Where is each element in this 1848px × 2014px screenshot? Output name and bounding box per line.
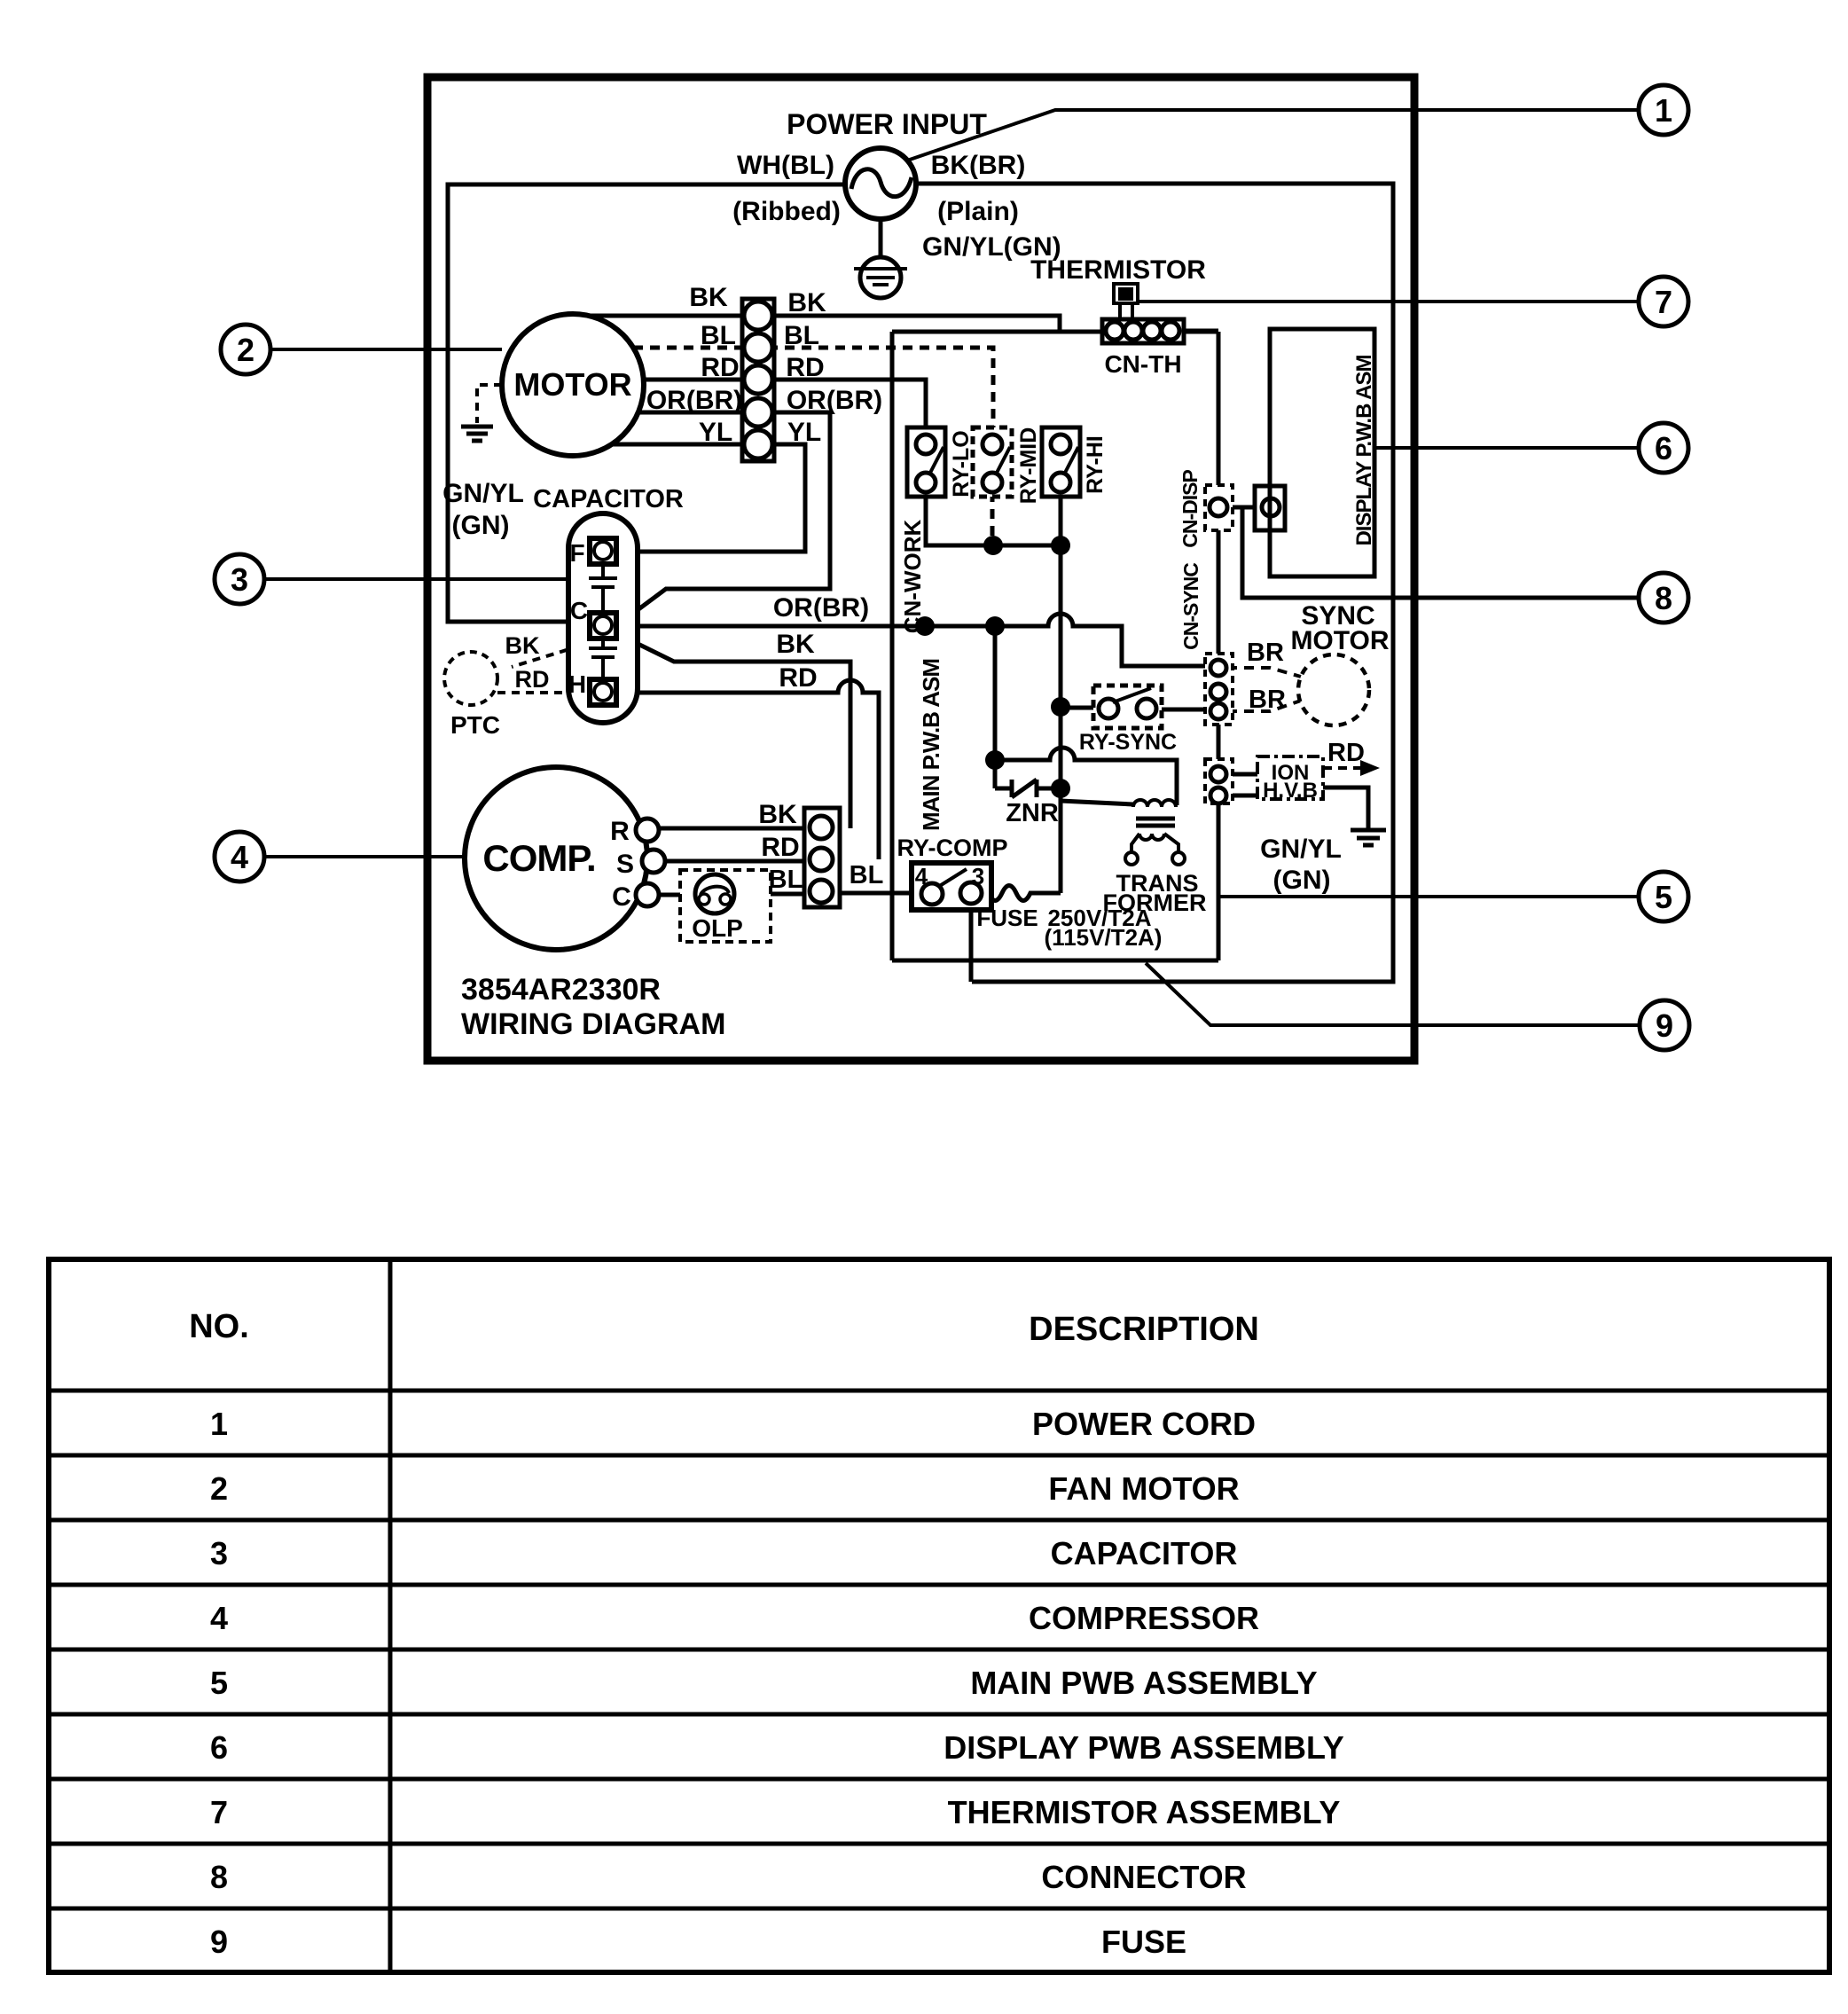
svg-text:9: 9 — [210, 1924, 228, 1960]
svg-text:GN/YL: GN/YL — [442, 479, 524, 508]
svg-text:COMPRESSOR: COMPRESSOR — [1029, 1600, 1259, 1636]
wire BL motor lead (dashed) to RY-MID — [633, 348, 993, 427]
svg-text:RD: RD — [779, 663, 817, 693]
svg-text:BR: BR — [1247, 639, 1284, 667]
ground earth bars right — [1351, 830, 1386, 845]
svg-text:4: 4 — [210, 1600, 228, 1636]
svg-text:RY-SYNC: RY-SYNC — [1079, 730, 1177, 755]
wire CN-DISP to display connector — [1218, 505, 1271, 510]
svg-text:RY-MID: RY-MID — [1016, 427, 1041, 505]
svg-text:NO.: NO. — [189, 1308, 249, 1345]
capacitor terminal C — [590, 613, 616, 639]
callout circle 1 — [1639, 85, 1688, 135]
ION H.V.B box (dash-dot) — [1257, 756, 1323, 799]
transformer secondary leads — [1132, 834, 1178, 852]
wire BK motor lead to main pwb — [589, 316, 1060, 332]
wire RD capacitor H to compressor S connector — [615, 680, 879, 859]
svg-text:(Ribbed): (Ribbed) — [732, 197, 841, 226]
svg-text:CAPACITOR: CAPACITOR — [533, 485, 684, 513]
motor ground dashed stub — [477, 385, 502, 423]
wire CN-TH to CN-DISP drop — [1184, 329, 1218, 333]
connector display side — [1255, 486, 1285, 530]
callout line 6 display pwb — [1374, 446, 1640, 450]
wire BL connector pin 3 to RY-COMP pin 4 — [840, 891, 932, 896]
capacitor plates F-C — [589, 564, 617, 613]
svg-text:ZNR: ZNR — [1006, 799, 1059, 827]
wire OR(BR) motor lead to capacitor C — [621, 412, 830, 623]
callout line 7 thermistor — [1137, 300, 1640, 303]
wire BR dashed CN-SYNC pin3 to sync motor — [1227, 701, 1301, 711]
wire BK capacitor C to compressor R connector — [618, 634, 850, 828]
compressor circle — [465, 767, 647, 950]
svg-text:1: 1 — [1655, 92, 1672, 129]
node OR(BR)/CN-WORK — [915, 616, 935, 636]
svg-text:BL: BL — [784, 321, 819, 350]
svg-text:3: 3 — [231, 561, 248, 598]
wire CN-ION pins to ION HVB box — [1227, 774, 1257, 795]
callout line 9 fuse — [1146, 963, 1640, 1025]
svg-text:BK: BK — [758, 800, 797, 829]
svg-text:6: 6 — [1655, 430, 1672, 466]
callout line 3 capacitor — [259, 577, 568, 581]
svg-text:FUSE: FUSE — [1101, 1924, 1186, 1960]
table row lines — [49, 1389, 1829, 1393]
wire compressor S to connector pin 2 — [658, 859, 821, 864]
svg-text:POWER INPUT: POWER INPUT — [787, 108, 987, 140]
capacitor terminal H — [590, 679, 616, 705]
wire RY-MID bottom (dashed) — [991, 492, 995, 545]
svg-text:CN-WORK: CN-WORK — [899, 520, 926, 634]
thermistor leads into CN-TH — [1120, 303, 1132, 321]
callout circle 2 — [221, 325, 270, 374]
svg-text:BK(BR): BK(BR) — [931, 151, 1026, 180]
svg-text:9: 9 — [1656, 1007, 1673, 1044]
callout circle 7 — [1639, 277, 1688, 326]
node RY-SYNC branch — [1051, 697, 1070, 717]
svg-text:CN-TH: CN-TH — [1104, 350, 1181, 378]
svg-text:BL: BL — [769, 866, 803, 894]
svg-text:(GN): (GN) — [1273, 866, 1331, 895]
svg-text:C: C — [612, 882, 631, 912]
node ZNR right — [1051, 779, 1070, 798]
svg-text:RD: RD — [786, 353, 824, 382]
wire hop over to transformer primary right — [995, 748, 1177, 805]
svg-text:8: 8 — [210, 1859, 228, 1895]
svg-text:RY-COMP: RY-COMP — [897, 835, 1007, 861]
svg-text:CN-SYNC: CN-SYNC — [1179, 563, 1202, 650]
svg-text:BR: BR — [1249, 686, 1286, 714]
node transformer branch — [985, 750, 1005, 770]
transformer primary coil — [1133, 800, 1176, 807]
compressor pin R — [636, 819, 659, 842]
svg-text:BK: BK — [776, 630, 815, 659]
svg-text:BL: BL — [850, 861, 884, 889]
node RY-MID bottom — [983, 536, 1003, 555]
connector CN-ION (dashed) — [1205, 759, 1233, 803]
wire compressor C to OLP — [658, 893, 697, 897]
svg-text:4: 4 — [915, 863, 928, 889]
svg-text:FUSE: FUSE — [976, 905, 1038, 931]
relay RY-HI box — [1042, 427, 1080, 497]
svg-text:3: 3 — [210, 1535, 228, 1571]
callout circle 6 — [1639, 423, 1688, 473]
wire WH(BL) neutral: power input left, down left side, to capacitor C — [448, 184, 845, 622]
svg-text:(Plain): (Plain) — [937, 197, 1019, 226]
svg-text:F: F — [569, 539, 584, 567]
svg-text:YL: YL — [699, 418, 732, 447]
wire BK(BR) line: power input right, down right side, to fuse node — [916, 184, 1393, 982]
table column divider — [388, 1259, 393, 1972]
outer border frame of wiring diagram — [427, 77, 1414, 1061]
fuse squiggle from RY-COMP pin 3 — [982, 886, 1061, 901]
svg-text:THERMISTOR ASSEMBLY: THERMISTOR ASSEMBLY — [948, 1794, 1341, 1830]
svg-text:THERMISTOR: THERMISTOR — [1030, 255, 1206, 285]
svg-text:CAPACITOR: CAPACITOR — [1051, 1535, 1238, 1571]
svg-text:7: 7 — [210, 1794, 228, 1830]
wire ION HVB to earth ground — [1323, 788, 1368, 828]
svg-text:DESCRIPTION: DESCRIPTION — [1029, 1311, 1259, 1348]
svg-text:2: 2 — [210, 1470, 228, 1507]
svg-text:C: C — [570, 597, 588, 624]
svg-text:YL: YL — [787, 418, 821, 447]
svg-text:OR(BR): OR(BR) — [773, 593, 869, 623]
svg-text:BK: BK — [505, 632, 540, 659]
capacitor body (stadium) — [568, 513, 638, 723]
svg-text:7: 7 — [1655, 284, 1672, 320]
relay RY-COMP box — [912, 863, 991, 910]
main pwb asm box bottom edge — [892, 959, 1218, 963]
wire RD dashed arrow out of ION HVB — [1323, 766, 1360, 770]
svg-text:RD: RD — [1327, 739, 1365, 767]
capacitor plates C-H — [589, 639, 617, 679]
ground symbol (earth in circle) below power input — [860, 257, 901, 298]
svg-text:RY-HI: RY-HI — [1083, 435, 1108, 494]
svg-text:H: H — [568, 670, 586, 698]
callout circle 5 — [1639, 872, 1688, 921]
svg-text:3854AR2330R: 3854AR2330R — [461, 973, 661, 1007]
connector CN-TH — [1102, 319, 1184, 343]
display pwb asm box — [1270, 329, 1374, 576]
svg-text:MAIN P.W.B ASM: MAIN P.W.B ASM — [918, 659, 944, 831]
table frame — [49, 1259, 1829, 1972]
wire junction down to callout 8 — [1242, 507, 1640, 598]
svg-text:BK: BK — [787, 288, 826, 317]
ground bars fan motor — [461, 427, 493, 441]
svg-text:MAIN PWB ASSEMBLY: MAIN PWB ASSEMBLY — [970, 1665, 1317, 1701]
power input AC source circle — [845, 148, 916, 219]
wire OR(BR) common from capacitor C to CN-SYNC — [615, 614, 1218, 666]
motor connector 5-pin — [742, 299, 774, 461]
sync motor dashed circle — [1298, 654, 1369, 725]
relay RY-SYNC box (dashed) — [1093, 686, 1162, 728]
OLP disc — [695, 874, 734, 913]
svg-text:CN-DISP: CN-DISP — [1178, 470, 1202, 548]
svg-text:OLP: OLP — [692, 914, 743, 942]
svg-text:POWER CORD: POWER CORD — [1032, 1406, 1256, 1442]
svg-text:BK: BK — [689, 283, 728, 312]
svg-text:OR(BR): OR(BR) — [646, 386, 742, 415]
svg-text:WH(BL): WH(BL) — [737, 151, 834, 180]
dashed BK capacitor to PTC — [512, 646, 581, 667]
svg-text:8: 8 — [1655, 580, 1672, 616]
transformer core — [1136, 819, 1175, 826]
svg-text:FORMER: FORMER — [1103, 889, 1207, 916]
wire RY-SYNC to CN-SYNC pin 3 — [1147, 708, 1218, 712]
wire neutral branch down to ZNR / transformer — [993, 626, 998, 788]
fan motor circle — [502, 314, 644, 456]
svg-text:RD: RD — [701, 353, 739, 382]
connector CN-SYNC (dashed) — [1205, 654, 1233, 725]
sine symbol inside power input — [851, 169, 912, 197]
connector CN-DISP (dashed) — [1205, 485, 1233, 530]
svg-text:2: 2 — [237, 332, 254, 368]
svg-text:H.V.B: H.V.B — [1263, 779, 1318, 803]
svg-text:FAN MOTOR: FAN MOTOR — [1048, 1470, 1239, 1507]
svg-text:3: 3 — [972, 863, 984, 889]
svg-text:5: 5 — [210, 1665, 228, 1701]
svg-text:(GN): (GN) — [452, 511, 510, 540]
svg-text:COMP.: COMP. — [482, 837, 595, 879]
capacitor terminal F — [590, 538, 616, 564]
svg-text:WIRING DIAGRAM: WIRING DIAGRAM — [461, 1007, 725, 1041]
varistor ZNR symbol — [1012, 780, 1061, 797]
connector 3-pin compressor side — [804, 808, 840, 907]
node OR(BR)/ZNR branch — [985, 616, 1005, 636]
wire BR dashed CN-SYNC pin1 to sync motor — [1227, 668, 1301, 677]
wire ZNR left lead — [995, 787, 1012, 791]
svg-text:OR(BR): OR(BR) — [787, 386, 882, 415]
main pwb asm box top edge / BK net — [892, 330, 1218, 334]
callout line 8 connector — [1250, 596, 1640, 599]
compressor pin S — [642, 850, 665, 873]
svg-text:1: 1 — [210, 1406, 228, 1442]
callout line 4 compressor — [259, 855, 466, 858]
wire YL motor lead to capacitor F — [612, 444, 805, 552]
svg-text:MOTOR: MOTOR — [1290, 626, 1389, 655]
main pwb asm box left edge — [890, 332, 895, 960]
svg-text:DISPLAY PWB ASSEMBLY: DISPLAY PWB ASSEMBLY — [944, 1729, 1343, 1766]
svg-text:6: 6 — [210, 1729, 228, 1766]
svg-text:RD: RD — [761, 833, 799, 862]
svg-text:(115V/T2A): (115V/T2A) — [1045, 924, 1163, 951]
wire RY-LO bottom to RY-HI column — [926, 492, 1061, 545]
node RY-HI bottom — [1051, 536, 1070, 555]
svg-text:RY-LO: RY-LO — [949, 430, 974, 497]
callout circle 3 — [215, 554, 264, 604]
svg-text:MOTOR: MOTOR — [513, 366, 631, 403]
svg-text:4: 4 — [231, 839, 248, 875]
wire RY-HI column: relay bottom down to fuse node — [1059, 492, 1063, 893]
callout line 5 main pwb — [1219, 895, 1640, 898]
OLP dashed box — [680, 870, 771, 942]
wire compressor R to connector pin 1 — [658, 827, 821, 831]
svg-text:RD: RD — [515, 666, 550, 693]
main pwb asm box right edge — [1217, 332, 1221, 960]
compressor pin C — [636, 883, 659, 906]
svg-text:BL: BL — [701, 321, 736, 350]
power input ground stem — [879, 219, 883, 258]
thermistor body — [1114, 284, 1138, 303]
svg-text:CONNECTOR: CONNECTOR — [1041, 1859, 1246, 1895]
svg-text:S: S — [616, 850, 634, 879]
callout line 1 to power cord — [904, 110, 1640, 161]
wire RD motor lead to RY-LO — [644, 380, 926, 427]
wire node to RY-SYNC coil — [1061, 706, 1108, 710]
svg-text:R: R — [610, 817, 630, 846]
PTC dashed circle — [444, 652, 497, 705]
wire RY-COMP pin3 down to BK(BR) return — [969, 904, 974, 982]
arrowhead RD — [1360, 760, 1380, 776]
svg-text:5: 5 — [1655, 879, 1672, 915]
svg-text:GN/YL: GN/YL — [1260, 835, 1342, 864]
relay RY-LO box — [907, 427, 945, 497]
transformer secondary coil — [1139, 834, 1164, 840]
callout line 2 fan motor — [257, 348, 502, 351]
dashed RD PTC to capacitor H — [497, 691, 589, 694]
callout circle 4 — [215, 832, 264, 882]
svg-text:DISPLAY P.W.B ASM: DISPLAY P.W.B ASM — [1352, 355, 1376, 545]
callout circle 9 — [1640, 1000, 1689, 1050]
svg-text:PTC: PTC — [450, 711, 500, 739]
wire transformer primary left lead — [1061, 801, 1133, 804]
relay RY-MID box (dashed) — [973, 427, 1012, 497]
wire OLP to connector pin 3 — [732, 892, 821, 897]
callout circle 8 — [1639, 573, 1688, 623]
